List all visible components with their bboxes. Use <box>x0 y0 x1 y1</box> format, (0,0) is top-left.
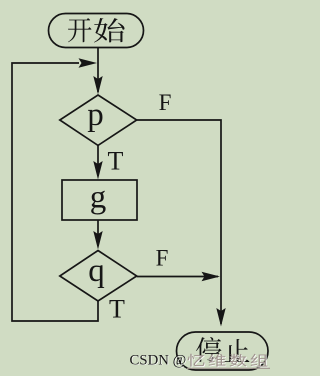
watermark glyph 忆 highlight <box>188 355 205 368</box>
arrowhead q F onto right rail <box>202 272 221 281</box>
watermark glyph 维 <box>208 354 225 367</box>
stop terminal box <box>177 332 269 370</box>
stop label 止 <box>225 339 250 362</box>
watermark underline <box>187 367 270 369</box>
watermark glyph 忆 <box>187 354 204 367</box>
watermark glyph 维 highlight <box>209 355 226 368</box>
wire q F branch to right rail <box>137 276 218 278</box>
wire g down to decision q <box>97 220 99 246</box>
watermark glyph 组 highlight <box>251 355 268 368</box>
svg-text:F: F <box>159 90 172 115</box>
arrowhead into decision q <box>93 231 102 250</box>
arrowhead into decision p <box>93 76 102 95</box>
stop label 停 <box>196 337 221 362</box>
decision diamond q <box>60 251 137 302</box>
svg-text:q: q <box>88 253 105 289</box>
process box g <box>62 180 137 220</box>
svg-text:p: p <box>87 97 104 133</box>
loop return arrowhead onto main line <box>79 58 98 67</box>
decision diamond p <box>60 95 137 145</box>
svg-text:T: T <box>109 295 125 324</box>
svg-text:F: F <box>156 246 169 271</box>
arrowhead into process g <box>93 161 102 180</box>
arrowhead into stop terminal <box>216 308 225 327</box>
svg-text:g: g <box>90 180 107 216</box>
watermark glyph 数 highlight <box>230 355 247 368</box>
wire p down to process g <box>97 145 99 176</box>
start label 始 <box>94 18 124 42</box>
svg-text:CSDN @: CSDN @ <box>130 352 187 368</box>
watermark glyph 组 <box>250 354 267 367</box>
start terminal box <box>49 14 144 48</box>
svg-text:T: T <box>108 147 124 176</box>
watermark glyph 数 <box>229 354 246 367</box>
loop return wire: q T branch, left rail, top run <box>12 63 98 321</box>
wire p F branch to right rail <box>137 120 221 324</box>
start label 开 <box>68 18 91 42</box>
wire start down to decision p <box>97 48 99 93</box>
